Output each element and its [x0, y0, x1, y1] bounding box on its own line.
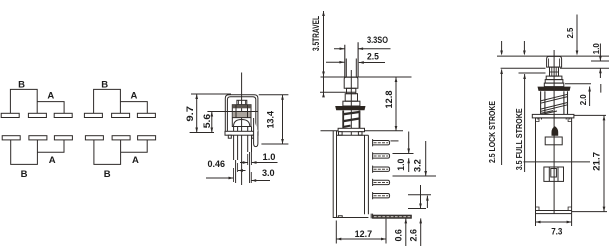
lock position line b — [501, 67, 609, 69]
body corner notch br — [568, 207, 572, 211]
pressed position line — [320, 91, 356, 93]
side pin 5 — [373, 192, 390, 199]
lock pin heart cam — [552, 126, 559, 135]
dim 5.6 line — [211, 112, 213, 133]
base foot right — [252, 135, 255, 138]
spring coil band 2 — [343, 118, 360, 121]
svg-text:2.5: 2.5 — [566, 27, 575, 38]
svg-text:0.46: 0.46 — [208, 159, 226, 169]
free position line — [321, 76, 412, 78]
svg-text:B: B — [18, 80, 25, 91]
pin dim ext line b — [393, 153, 414, 155]
flange plate — [335, 106, 365, 110]
contact block center rect — [551, 169, 557, 178]
dim 0.6 line — [405, 218, 407, 246]
svg-text:2.0: 2.0 — [578, 94, 588, 105]
terminal pad top 1 — [84, 113, 102, 117]
svg-text:B: B — [104, 169, 111, 180]
terminal pad bottom 1 — [2, 136, 20, 140]
lock flange plate — [538, 87, 571, 91]
lock body outline — [536, 118, 572, 214]
terminal pad top 3 — [137, 113, 155, 117]
terminal pad bottom 3 — [54, 136, 72, 140]
line y61 short — [591, 60, 609, 62]
svg-text:B: B — [101, 80, 108, 91]
bushing box 1 — [344, 77, 358, 88]
svg-text:A: A — [132, 155, 139, 166]
dim 12.8 line — [395, 77, 397, 131]
front body bottom dome — [234, 120, 250, 127]
spring washer — [338, 128, 364, 131]
washer foot left — [339, 132, 343, 136]
dim 2.5 right line — [576, 15, 578, 55]
front center axis — [241, 73, 243, 186]
svg-text:3.2: 3.2 — [413, 159, 423, 172]
side pin 3 — [373, 166, 390, 173]
dim 3.2 line — [425, 141, 427, 176]
dim 3.3SO arrows — [334, 48, 391, 50]
dim 12.7 line — [336, 238, 386, 240]
terminal pad top 2 — [112, 113, 130, 117]
circuit schematic block 1 — [1, 80, 72, 180]
spring coil stub — [343, 126, 351, 127]
lock spring coil band 2 — [541, 103, 568, 112]
dim 9.7 line — [196, 94, 198, 133]
bushing box 4 — [343, 101, 360, 106]
front cap inner lines — [238, 100, 245, 104]
pin dim ext line e — [408, 208, 426, 210]
terminal pad top 1 — [1, 113, 19, 117]
front body mid band — [233, 112, 251, 118]
terminal pad bottom 2 — [112, 136, 130, 140]
circuit schematic block 2 — [84, 80, 155, 180]
svg-text:1.0: 1.0 — [263, 152, 276, 162]
lock plunger cap — [547, 56, 562, 67]
dim 1.0 arrows — [240, 162, 278, 164]
lock plunger neck inner lines — [552, 67, 556, 76]
svg-text:2.6: 2.6 — [408, 229, 418, 242]
dim 2.0 line — [590, 84, 601, 106]
spring coil band 1 — [343, 112, 360, 114]
terminal pad bottom 1 — [85, 136, 103, 140]
svg-text:A: A — [47, 91, 54, 102]
terminal pad bottom 3 — [138, 136, 156, 140]
svg-text:A: A — [131, 91, 138, 102]
lock stroke top arrow — [501, 41, 503, 54]
dim 2.5 arrows — [326, 61, 385, 63]
front body mid line — [232, 117, 251, 119]
front pin 2 — [248, 127, 252, 184]
svg-text:12.7: 12.7 — [355, 229, 373, 240]
svg-text:3.0: 3.0 — [262, 168, 275, 178]
lock spring rails — [541, 91, 568, 114]
svg-text:7.3: 7.3 — [551, 226, 562, 237]
dim 3.5 full stroke line — [524, 74, 526, 172]
dim 1.0 right line — [599, 44, 601, 79]
dim 9.7 extension top — [191, 93, 231, 95]
wire B top bracket — [94, 89, 121, 113]
front plunger cap — [237, 100, 247, 104]
svg-text:3.3SO: 3.3SO — [367, 35, 388, 45]
pin dim ext line c — [393, 175, 437, 177]
dim 1.0 line — [408, 132, 410, 173]
washer level line right — [365, 130, 403, 132]
svg-text:1.0: 1.0 — [592, 43, 601, 55]
wire B top bracket — [10, 89, 37, 113]
dim 5.6 ref line — [207, 111, 258, 113]
wire B bottom bracket — [94, 140, 121, 165]
svg-text:2.5: 2.5 — [367, 51, 379, 61]
dim 21.7 line — [603, 115, 605, 211]
body corner notch bl — [536, 207, 540, 211]
front body inner columns — [236, 105, 248, 118]
terminal pad bottom 2 — [29, 136, 47, 140]
pin dim ext line a — [391, 140, 399, 142]
dim 2.6 line — [420, 218, 422, 246]
wire A bottom bracket — [121, 140, 148, 152]
dim 3.0 arrows — [251, 180, 270, 182]
front bracket outer — [225, 95, 258, 132]
dim 2.5 lock stroke line — [501, 70, 503, 166]
lock body bottom double line — [536, 210, 572, 212]
front bracket right leg hook — [254, 118, 258, 147]
dim 12.7 ext right — [385, 219, 387, 244]
bushing box 3 — [345, 94, 357, 102]
wire B bottom bracket — [11, 140, 38, 165]
terminal pad top 2 — [28, 113, 46, 117]
svg-text:9.7: 9.7 — [185, 106, 195, 122]
wire A top bracket — [120, 102, 147, 114]
lock spring coil band 3 — [541, 111, 557, 115]
lock plunger neck midline — [550, 71, 559, 73]
side pin 6 flat — [371, 214, 411, 219]
front base bar — [225, 131, 258, 135]
ring ext line — [565, 83, 591, 85]
svg-text:B: B — [21, 169, 28, 180]
base foot left — [228, 135, 231, 138]
lock center axis — [553, 50, 555, 214]
full position line c — [519, 72, 546, 74]
body corner notch tl — [536, 118, 540, 122]
side pin 4 — [373, 179, 390, 186]
cam rect — [545, 137, 562, 145]
wire A top bracket — [37, 102, 64, 114]
front pin 1 — [234, 127, 238, 184]
pin dim ext line d — [408, 194, 431, 196]
contact block — [544, 167, 564, 181]
lock washer feet — [538, 118, 570, 120]
dim 7.3 line — [536, 221, 572, 223]
washer level line left — [321, 130, 339, 132]
svg-text:12.8: 12.8 — [384, 91, 394, 109]
contact block inner lines — [549, 167, 558, 181]
svg-text:21.7: 21.7 — [592, 152, 603, 171]
free position line a — [497, 55, 609, 57]
spring left rail — [342, 111, 344, 129]
washer ext line right — [574, 114, 606, 116]
wire A bottom bracket — [37, 140, 64, 152]
dim 7.3 ext right — [571, 214, 573, 226]
dim 3.5 travel line — [323, 11, 325, 96]
svg-text:0.6: 0.6 — [394, 229, 404, 242]
lock plunger ring 2 — [545, 80, 563, 84]
dim 13.4 extension bottom — [261, 143, 288, 145]
lock plunger ring 3 — [544, 83, 564, 87]
dim 12.7 ext left — [335, 221, 337, 244]
side body bottom notch — [338, 216, 342, 218]
svg-text:A: A — [49, 155, 56, 166]
side center axis — [350, 70, 352, 135]
lock spring washer — [532, 114, 574, 118]
side pin 2 — [373, 152, 390, 159]
dim 7.3 ext left — [535, 214, 537, 226]
dim 9.7 extension bottom — [190, 132, 214, 134]
side pin 1 — [373, 139, 390, 146]
lock plunger cap inner lines — [549, 59, 560, 68]
dim 0.46 arrows — [238, 170, 246, 172]
dim 13.4 line — [282, 95, 284, 144]
spring right rail — [359, 111, 361, 129]
svg-text:3.5TRAVEL: 3.5TRAVEL — [311, 16, 321, 51]
terminal pad top 3 — [54, 113, 72, 117]
lock plunger neck — [550, 67, 559, 76]
svg-text:5.6: 5.6 — [202, 114, 212, 128]
lock plunger ring 1 — [546, 76, 562, 80]
washer foot right — [358, 132, 362, 136]
body bottom ext right — [572, 211, 607, 213]
dim 13.4 extension top — [259, 94, 289, 96]
svg-text:1.0: 1.0 — [396, 159, 406, 171]
svg-text:3.5 FULL STROKE: 3.5 FULL STROKE — [515, 108, 524, 170]
body mid seam line — [524, 161, 591, 163]
pin5 gauge arrows — [421, 185, 428, 209]
bushing box 2 — [347, 88, 356, 93]
full stroke top arrow — [523, 41, 525, 54]
front switch body — [232, 105, 251, 127]
shaft inner lines — [346, 59, 356, 78]
body corner notch tr — [568, 118, 572, 122]
lock spring coil band 1 — [541, 94, 568, 103]
side body outline — [333, 131, 368, 218]
svg-text:13.4: 13.4 — [265, 110, 276, 128]
dim extension stubs — [234, 148, 252, 183]
front body top dark band — [232, 105, 251, 109]
front bracket inner — [227, 97, 255, 132]
svg-text:2.5 LOCK STROKE: 2.5 LOCK STROKE — [488, 101, 497, 163]
shaft outer lines — [345, 42, 358, 77]
